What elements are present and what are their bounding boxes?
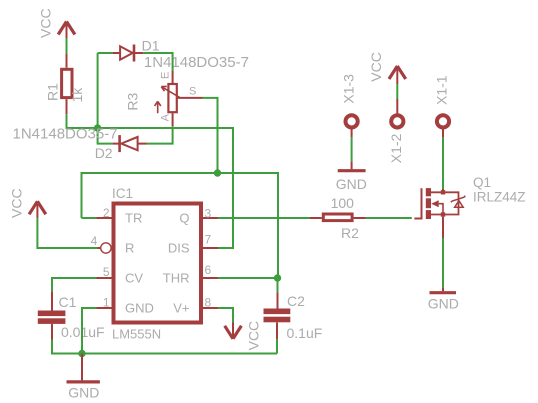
body diode [451, 196, 466, 203]
svg-text:VCC: VCC [246, 321, 262, 351]
svg-text:8: 8 [205, 296, 212, 310]
bulk arrow [431, 200, 439, 207]
svg-text:D2: D2 [95, 145, 113, 161]
svg-text:0.1uF: 0.1uF [287, 325, 323, 341]
svg-text:X1-1: X1-1 [434, 75, 450, 105]
wire TR/THR horizontal net [82, 173, 279, 278]
svg-text:Q: Q [179, 210, 189, 225]
wire Q output to R2 [218, 217, 309, 219]
resistor R2 [309, 214, 366, 221]
supply symbol VCC (mid-left) [29, 201, 46, 218]
wire pin1 GND down [82, 308, 97, 354]
svg-text:A: A [160, 113, 172, 121]
gate [414, 188, 421, 218]
svg-text:3: 3 [205, 207, 212, 221]
wire R3 A to D2 anode [147, 126, 173, 143]
capacitor C1 [38, 291, 66, 339]
node junction (GND rail) [78, 350, 85, 357]
wire V+ to VCC [218, 308, 233, 323]
svg-text:GND: GND [336, 176, 367, 192]
svg-text:V+: V+ [173, 300, 189, 315]
pin 4 R bubble [101, 243, 111, 253]
svg-text:VCC: VCC [38, 8, 54, 38]
pin dots [441, 190, 445, 194]
wire Q1 source to GND [442, 217, 444, 238]
svg-text:IC1: IC1 [112, 186, 133, 201]
svg-text:R3: R3 [125, 92, 141, 110]
wire R1 bottom to junction [67, 114, 98, 128]
svg-text:LM555N: LM555N [112, 327, 161, 342]
svg-text:DIS: DIS [168, 240, 190, 255]
svg-text:1k: 1k [69, 87, 85, 103]
svg-text:R: R [125, 240, 134, 255]
svg-text:VCC: VCC [368, 52, 384, 82]
connector X1-2 [391, 115, 403, 127]
svg-text:THR: THR [163, 270, 190, 285]
pin 5 CV stub [97, 277, 112, 279]
svg-text:R2: R2 [341, 225, 359, 241]
wire X1-3 to GND [351, 129, 353, 169]
pin 1 GND stub [97, 307, 112, 309]
pin 8 V+ stub [203, 307, 218, 309]
pin 7 DIS stub [203, 247, 218, 249]
node junction (wiper to net) [214, 169, 221, 176]
svg-text:VCC: VCC [9, 188, 25, 218]
wire VCC to R1 [66, 38, 68, 54]
connector X1-1 [437, 115, 449, 127]
pin 6 THR stub [203, 277, 218, 279]
svg-text:X1-3: X1-3 [340, 74, 356, 104]
wire C2 bottom to ground rail [276, 339, 278, 353]
potentiometer R3 [155, 71, 203, 126]
channel bars [426, 188, 431, 219]
svg-text:100: 100 [331, 195, 355, 211]
wire R2 to gate [366, 217, 412, 219]
wire junction down to C2 [277, 278, 279, 292]
wire CV to C1 [52, 278, 97, 291]
supply symbol VCC (down arrow near V+) [225, 323, 242, 339]
svg-text:1: 1 [103, 296, 110, 310]
svg-text:4: 4 [91, 234, 98, 248]
svg-text:1N4148DO35-7: 1N4148DO35-7 [13, 126, 118, 143]
svg-text:E: E [160, 72, 172, 79]
pin 2 TR stub [97, 217, 112, 219]
node junction (THR/C2) [274, 274, 281, 281]
wire C1 bottom to ground rail [52, 340, 277, 354]
svg-text:C1: C1 [59, 294, 77, 310]
svg-text:X1-2: X1-2 [388, 133, 404, 163]
svg-text:R1: R1 [45, 83, 61, 101]
svg-text:GND: GND [428, 295, 459, 311]
capacitor C2 [264, 292, 291, 339]
node junction (DIS net) [94, 124, 101, 131]
connector X1-3 [346, 115, 358, 127]
supply symbol VCC (top-left) [58, 22, 75, 39]
wire to TR pin [82, 217, 97, 219]
svg-text:6: 6 [205, 263, 212, 277]
wire D1 cathode to R3 top [143, 53, 173, 71]
svg-text:2: 2 [103, 206, 110, 220]
wire THR to junction [218, 277, 278, 279]
wire X1-1 to Q1 drain [442, 129, 444, 137]
supply symbol VCC (above X1-2) [389, 66, 406, 84]
svg-text:S: S [189, 86, 196, 98]
wire VCC to R pin [37, 218, 97, 248]
wire DIS net horizontal run [98, 128, 233, 248]
transistor Q1 (n-channel MOSFET) [414, 188, 465, 219]
svg-text:D1: D1 [142, 38, 160, 54]
svg-text:GND: GND [125, 300, 154, 315]
diode D1 [113, 45, 144, 62]
resistor R1 [62, 54, 72, 114]
svg-text:1N4148DO35-7: 1N4148DO35-7 [144, 54, 249, 71]
IC box IC1 [114, 204, 202, 323]
wire D1 anode vertical [97, 53, 99, 128]
wire D2 cathode vertical [98, 128, 113, 144]
svg-text:C2: C2 [287, 293, 305, 309]
wire to D1 [98, 52, 113, 54]
wire X1-2 to VCC [396, 84, 398, 99]
drain link [431, 192, 459, 214]
ground symbol GND (bottom-left) [67, 354, 100, 382]
svg-text:Q1: Q1 [473, 175, 491, 190]
svg-text:5: 5 [103, 265, 110, 279]
svg-text:CV: CV [125, 270, 143, 285]
wire S wiper to TR/THR net [203, 98, 218, 173]
svg-text:TR: TR [125, 210, 142, 225]
diode D2 [113, 135, 147, 152]
svg-text:IRLZ44Z: IRLZ44Z [473, 189, 526, 204]
ground symbol GND (Q1) [430, 291, 457, 294]
ground symbol GND (X1-3) [338, 169, 366, 172]
svg-text:7: 7 [205, 233, 212, 247]
svg-text:GND: GND [68, 385, 99, 401]
pin 3 Q stub [203, 217, 218, 219]
